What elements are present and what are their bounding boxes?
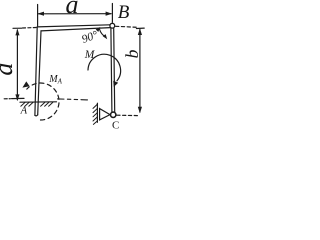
label b (rotated) — [122, 49, 142, 58]
label a (top) — [66, 0, 79, 19]
pin support C: circle — [111, 112, 116, 117]
dashed line from B to right dimension — [116, 26, 138, 27]
label a (left, rotated) — [0, 63, 18, 76]
label M — [84, 49, 96, 61]
pin support C: wall line — [96, 103, 98, 122]
svg-text:a: a — [0, 63, 18, 76]
extension dashes top-left — [23, 27, 37, 30]
svg-text:A: A — [20, 105, 28, 116]
reaction moment MA dashed arc — [22, 81, 59, 120]
member AB top bar (double line) — [37, 25, 110, 31]
svg-text:MA: MA — [48, 74, 62, 86]
label B — [118, 2, 130, 23]
svg-text:a: a — [66, 0, 79, 19]
pin support C: triangle — [100, 109, 110, 120]
pin support C: wall hatching — [93, 104, 98, 124]
fixed support A: ground hatching — [21, 102, 53, 106]
label A — [20, 105, 28, 116]
pin joint B (circle) — [110, 23, 115, 28]
extension dashes bottom-left — [4, 98, 10, 100]
label C — [112, 119, 119, 131]
svg-text:B: B — [118, 2, 130, 23]
dimension line b (right) — [136, 28, 144, 113]
svg-text:C: C — [112, 119, 119, 131]
moment M arc (clockwise arrow over bar BC) — [88, 54, 121, 87]
dashed line from C to right dimension — [117, 114, 138, 116]
label MA — [48, 74, 62, 86]
svg-text:M: M — [84, 49, 96, 61]
dimension line a (top) — [37, 12, 112, 16]
svg-text:90°: 90° — [80, 29, 100, 46]
svg-text:b: b — [122, 49, 142, 58]
extension line left of top dimension — [37, 5, 39, 27]
extension line at B for top dimension — [111, 4, 113, 23]
label 90deg — [80, 29, 100, 46]
member AB left bar (double line) — [35, 27, 41, 116]
member BC bar (double line) — [111, 28, 115, 112]
dimension line a (left) — [12, 28, 24, 101]
fixed support A: ground line — [20, 101, 57, 103]
dashed construction line at ground level toward C — [58, 99, 91, 100]
90 degree arc with arrowheads — [96, 27, 108, 39]
